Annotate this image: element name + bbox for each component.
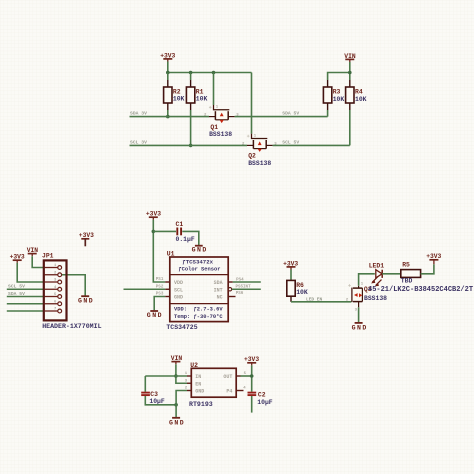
svg-text:OUT: OUT bbox=[223, 374, 232, 380]
wire pin2 to GND bbox=[62, 275, 86, 296]
wire VIN to pin1 bbox=[32, 256, 44, 267]
svg-text:GND: GND bbox=[78, 297, 94, 304]
supply +3V3 (floating near JP1) bbox=[79, 232, 94, 246]
transistor Q3 bbox=[346, 283, 387, 313]
wire SCL 5V rail bbox=[273, 144, 350, 146]
node junction rail/R2 bbox=[166, 71, 170, 75]
svg-text:10K: 10K bbox=[333, 96, 345, 103]
wire OUT to +3V3 column bbox=[241, 375, 252, 377]
node junction rail/R1 bbox=[189, 71, 193, 75]
svg-text:ƒ-30-70°C: ƒ-30-70°C bbox=[194, 314, 224, 320]
transistor Q2 bbox=[242, 134, 277, 167]
resistor R3 bbox=[323, 80, 344, 110]
pin 6 bbox=[45, 300, 62, 305]
ground GND (C1) bbox=[192, 246, 208, 254]
pin NC (PS6) bbox=[217, 292, 244, 301]
wire rail to R1 top bbox=[190, 73, 192, 81]
wire to C1 bbox=[153, 230, 176, 232]
pin GND (2) bbox=[185, 387, 204, 395]
supply +3V3 (JP1 pin3) bbox=[10, 254, 25, 263]
pin P4 (4) bbox=[226, 387, 246, 395]
LED LED1 bbox=[369, 262, 385, 286]
pin SDA (PS4) bbox=[214, 278, 245, 286]
wire SDA 3V rail bbox=[130, 116, 210, 118]
svg-text:TCS34725: TCS34725 bbox=[166, 324, 197, 331]
node label SDA 5V bbox=[282, 111, 299, 117]
part number text bbox=[368, 286, 473, 294]
node junction gnd rail bbox=[174, 403, 178, 407]
svg-text:SCL 5V: SCL 5V bbox=[282, 139, 299, 145]
node label SCL 3V bbox=[130, 139, 147, 145]
resistor R6 bbox=[287, 280, 308, 301]
pin INT (PS5) bbox=[214, 286, 251, 294]
svg-text:NC: NC bbox=[217, 295, 223, 301]
ground GND (JP1 pin2) bbox=[78, 296, 94, 304]
svg-text:R2: R2 bbox=[173, 88, 181, 95]
pin 3 bbox=[45, 279, 62, 284]
wire +3V3 stub down to rail bbox=[167, 62, 169, 73]
wire VIN column to EN corner bbox=[176, 364, 187, 383]
pin EN (3) bbox=[185, 379, 201, 387]
svg-text:R5: R5 bbox=[402, 261, 410, 268]
svg-text:GND: GND bbox=[169, 419, 185, 426]
svg-text:IN: IN bbox=[195, 374, 201, 380]
resistor R2 bbox=[164, 80, 185, 110]
capacitor C3 bbox=[141, 391, 165, 405]
wire +3V3 to R6 bbox=[290, 270, 292, 281]
pin SCL (PS2) bbox=[156, 285, 183, 293]
wire GND pin down bbox=[176, 391, 187, 418]
svg-text:GND: GND bbox=[192, 247, 208, 254]
node junction R2/SDA3V bbox=[166, 115, 170, 119]
wire pin4 SCL 5V bbox=[7, 288, 45, 290]
svg-text:10K: 10K bbox=[196, 96, 208, 103]
wire R5 to +3V3 bbox=[421, 264, 434, 274]
wire INT stub bbox=[232, 288, 261, 290]
node origin mark Q1 bbox=[209, 106, 212, 109]
svg-text:10µF: 10µF bbox=[257, 399, 273, 406]
svg-text:BSS138: BSS138 bbox=[248, 160, 271, 167]
svg-text:C1: C1 bbox=[176, 221, 184, 228]
wire LED EN to Q3 gate bbox=[291, 301, 351, 303]
wire VIN down to R4 bbox=[349, 62, 351, 80]
ground GND (Q3) bbox=[352, 323, 368, 331]
svg-text:GND: GND bbox=[174, 295, 183, 301]
svg-text:GND: GND bbox=[352, 324, 368, 331]
svg-text:SDA 5V: SDA 5V bbox=[8, 291, 25, 297]
pin 7 bbox=[45, 308, 62, 313]
svg-text:TBD: TBD bbox=[401, 278, 413, 285]
ground GND (U1) bbox=[147, 311, 163, 319]
supply +3V3 (top) bbox=[160, 52, 175, 61]
svg-text:SDA 5V: SDA 5V bbox=[282, 111, 299, 117]
wire C2 bottom lead bbox=[251, 396, 253, 413]
supply VIN bbox=[344, 53, 356, 62]
wire +3V3 to pin3 bbox=[17, 263, 44, 282]
svg-text:ƒ2.7-3.6V: ƒ2.7-3.6V bbox=[194, 307, 224, 313]
svg-text:10K: 10K bbox=[355, 96, 367, 103]
resistor R1 bbox=[186, 80, 207, 110]
node label SCL 5V bbox=[282, 139, 299, 145]
svg-text:EN: EN bbox=[195, 381, 201, 387]
node label LED EN bbox=[306, 297, 323, 303]
capacitor C1 bbox=[176, 221, 195, 243]
wire LED to R5 bbox=[382, 273, 401, 275]
svg-text:JP1: JP1 bbox=[42, 252, 54, 259]
wire rail to R2 top bbox=[167, 73, 169, 81]
ground GND (U2) bbox=[169, 418, 185, 427]
wire C3 top lead bbox=[144, 376, 146, 392]
svg-text:SCL: SCL bbox=[174, 287, 183, 293]
wire Q3 source to GND bbox=[358, 307, 360, 322]
capacitor C2 bbox=[248, 392, 273, 406]
svg-text:RT9193: RT9193 bbox=[189, 401, 213, 408]
wire SDA 5V rail bbox=[235, 116, 328, 118]
wire +3V3 down to VDD pin bbox=[153, 220, 165, 282]
wire pin6 bbox=[7, 303, 45, 305]
svg-text:ƒTCS3472x: ƒTCS3472x bbox=[182, 258, 213, 265]
svg-text:SDA 3V: SDA 3V bbox=[130, 111, 147, 117]
svg-text:R3: R3 bbox=[333, 89, 341, 96]
svg-text:Q1: Q1 bbox=[210, 124, 218, 131]
wire SCL stub bbox=[124, 288, 166, 290]
wire IN row to C3 corner bbox=[145, 375, 187, 377]
supply VIN (JP1 pin1) bbox=[27, 247, 39, 256]
svg-text:C2: C2 bbox=[258, 392, 266, 399]
svg-text:INT: INT bbox=[214, 287, 223, 293]
node label SDA 5V (JP1) bbox=[8, 291, 25, 297]
pin 1 bbox=[45, 264, 62, 269]
svg-text:VDD: VDD bbox=[174, 280, 183, 286]
resistor R4 bbox=[346, 80, 367, 110]
svg-text:PS1: PS1 bbox=[156, 278, 164, 282]
wire SCL 3V rail bbox=[130, 144, 248, 146]
node junction C1 branch bbox=[152, 230, 156, 234]
wire +3V3 column down through OUT to C2 bbox=[251, 365, 253, 391]
node junction rail/Q1 gate bbox=[212, 71, 216, 75]
node label SDA 3V bbox=[130, 111, 147, 117]
svg-text:HEADER-1X770MIL: HEADER-1X770MIL bbox=[42, 323, 101, 330]
supply +3V3 (U1) bbox=[146, 211, 161, 220]
svg-text:P4: P4 bbox=[226, 389, 232, 395]
supply +3V3 (R5) bbox=[426, 253, 441, 264]
svg-text:0.1µF: 0.1µF bbox=[176, 236, 195, 243]
svg-text:GND: GND bbox=[147, 312, 163, 319]
wire jog VIN to R3 bbox=[328, 73, 350, 81]
svg-text:SCL 3V: SCL 3V bbox=[130, 139, 147, 145]
svg-text:Q2: Q2 bbox=[248, 153, 256, 160]
wire Q3 drain up to LED bbox=[359, 274, 375, 286]
connector JP1 bbox=[42, 252, 102, 330]
node junction VIN/jog bbox=[348, 71, 352, 75]
svg-text:45-21/LK2C-B38452C4CB2/2T: 45-21/LK2C-B38452C4CB2/2T bbox=[368, 286, 473, 294]
pin 4 bbox=[45, 286, 62, 291]
svg-text:PS6: PS6 bbox=[236, 292, 244, 296]
wire R4 bottom to SCL5V rail bbox=[349, 110, 351, 145]
svg-text:BSS138: BSS138 bbox=[209, 131, 232, 138]
node junction OUT/+3V3 bbox=[250, 374, 254, 378]
wire pin5 SDA 5V bbox=[7, 296, 45, 298]
ic U2 box bbox=[189, 362, 236, 408]
pin GND (PS3) bbox=[156, 293, 183, 301]
wire Q2 gate feed bbox=[251, 73, 253, 134]
pin IN (1) bbox=[185, 372, 201, 380]
node origin mark Q3 bbox=[348, 284, 351, 287]
svg-text:R4: R4 bbox=[355, 89, 363, 96]
resistor R5 bbox=[401, 261, 421, 284]
supply +3V3 (U2 out) bbox=[244, 356, 259, 365]
ic U1 box bbox=[166, 250, 228, 331]
wire C1 to GND bbox=[182, 231, 199, 245]
wire R1 bottom to SCL 3V rail bbox=[190, 110, 192, 145]
wire top rail 3V3 bbox=[168, 72, 252, 74]
pin VDD (PS1) bbox=[156, 278, 183, 286]
svg-text:LED EN: LED EN bbox=[306, 297, 323, 303]
wire R2 bottom to SDA 3V rail bbox=[167, 110, 169, 117]
svg-text:VDD:: VDD: bbox=[174, 307, 187, 313]
node label SCL 5V (JP1) bbox=[8, 284, 25, 290]
svg-text:BSS138: BSS138 bbox=[364, 295, 387, 302]
svg-text:SCL 5V: SCL 5V bbox=[8, 284, 25, 290]
svg-text:Temp:: Temp: bbox=[174, 314, 190, 320]
svg-text:GND: GND bbox=[195, 389, 204, 395]
transistor Q1 bbox=[204, 105, 239, 138]
supply VIN (U2) bbox=[171, 355, 183, 364]
svg-text:10K: 10K bbox=[296, 289, 308, 296]
pin 2 bbox=[45, 271, 62, 276]
svg-text:10K: 10K bbox=[173, 96, 185, 103]
svg-text:10µF: 10µF bbox=[149, 398, 165, 405]
svg-text:ƒColor Sensor: ƒColor Sensor bbox=[178, 267, 220, 273]
node junction VIN/IN row bbox=[174, 374, 178, 378]
svg-text:R1: R1 bbox=[196, 88, 204, 95]
wire SDA stub bbox=[233, 281, 261, 283]
pin 5 bbox=[45, 293, 62, 298]
node origin mark Q2 bbox=[247, 135, 250, 138]
wire Q1 gate feed bbox=[213, 73, 215, 106]
svg-text:SDA: SDA bbox=[214, 280, 223, 286]
supply +3V3 (R6) bbox=[283, 261, 298, 270]
wire pin7 bbox=[7, 310, 45, 312]
wire C3 bottom to gnd rail bbox=[145, 396, 176, 405]
pin OUT (5) bbox=[223, 372, 246, 380]
wire R3 bottom to SDA5V rail bbox=[327, 110, 329, 117]
wire GND pin to gnd symbol bbox=[154, 297, 165, 311]
node junction R1/SCL3V bbox=[189, 144, 193, 148]
svg-text:LED1: LED1 bbox=[369, 262, 385, 269]
